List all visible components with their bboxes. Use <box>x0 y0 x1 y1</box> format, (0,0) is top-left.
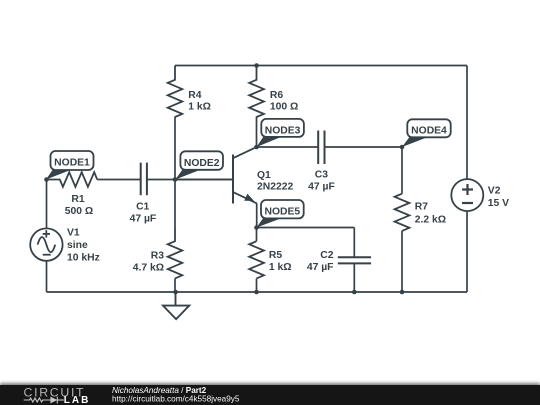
svg-text:1 kΩ: 1 kΩ <box>269 262 292 273</box>
wire NODE3 to C3 <box>257 146 319 148</box>
label C2 value <box>307 250 334 273</box>
label C3 value <box>308 169 335 192</box>
wire V2 branch top <box>466 66 468 180</box>
svg-text:NODE5: NODE5 <box>264 207 300 218</box>
label R3 value <box>133 251 165 274</box>
label C1 value <box>130 202 157 225</box>
svg-text:C2: C2 <box>320 250 333 261</box>
wire R1 to C1 <box>97 179 141 181</box>
transistor Q1 <box>175 147 257 204</box>
node NODE5 <box>257 200 304 228</box>
svg-text:NODE4: NODE4 <box>411 126 447 137</box>
svg-text:http://circuitlab.com/c4k558jv: http://circuitlab.com/c4k558jvea9y5 <box>112 395 240 404</box>
svg-text:10 kHz: 10 kHz <box>67 253 100 264</box>
wire C1 to NODE2 <box>147 179 232 181</box>
resistor R4 <box>168 66 183 118</box>
junction NODE1 <box>44 177 49 182</box>
node NODE4 <box>402 119 451 147</box>
resistor R3 <box>168 228 183 278</box>
wire V1 top lead <box>46 180 48 229</box>
wire bottom rail <box>47 291 468 293</box>
resistor R6 <box>249 66 264 118</box>
label R7 value <box>415 202 446 226</box>
junction NODE4 <box>400 145 405 150</box>
wire C2 bottom lead <box>353 263 355 292</box>
svg-text:R7: R7 <box>415 202 428 213</box>
wire R7 lower lead <box>401 231 403 292</box>
junction NODE5 <box>254 225 259 230</box>
wire top rail <box>175 65 467 67</box>
svg-text:2.2 kΩ: 2.2 kΩ <box>415 214 446 225</box>
capacitor C2 <box>338 257 371 263</box>
svg-text:R3: R3 <box>151 251 164 262</box>
wire R3 lower lead <box>174 279 176 293</box>
resistor R7 <box>395 194 410 231</box>
svg-text:R1: R1 <box>71 194 84 205</box>
svg-text:NODE3: NODE3 <box>265 125 301 136</box>
svg-text:4.7 kΩ: 4.7 kΩ <box>133 262 164 273</box>
logo resistor-diode line <box>24 397 64 404</box>
wire R7 upper lead <box>401 147 403 194</box>
svg-text:NODE2: NODE2 <box>184 158 220 169</box>
svg-text:500 Ω: 500 Ω <box>65 206 93 217</box>
svg-text:R6: R6 <box>270 90 283 101</box>
svg-text:100 Ω: 100 Ω <box>270 102 298 113</box>
capacitor C3 <box>318 131 324 165</box>
wire C3 to NODE4 <box>325 146 403 148</box>
junction R5 / bottom rail <box>254 290 259 295</box>
wire R4 lower lead <box>174 117 176 229</box>
wire V1 bottom lead <box>46 261 48 292</box>
node NODE3 <box>257 119 304 147</box>
wire V2 branch bottom <box>466 211 468 292</box>
source V1 <box>30 228 62 260</box>
junction R7 / bottom rail <box>400 290 405 295</box>
svg-text:NODE1: NODE1 <box>54 158 90 169</box>
label V1 value <box>67 227 100 263</box>
label Q1 value <box>257 170 293 193</box>
svg-text:15 V: 15 V <box>488 198 509 209</box>
node NODE2 <box>175 151 223 179</box>
svg-text:NicholasAndreatta / Part2: NicholasAndreatta / Part2 <box>112 386 207 395</box>
wire R6 to NODE3 <box>256 117 258 148</box>
svg-text:1 kΩ: 1 kΩ <box>188 102 211 113</box>
ground <box>163 292 189 319</box>
svg-text:LAB: LAB <box>64 395 91 405</box>
junction NODE2 <box>173 177 178 182</box>
resistor R1 <box>47 172 98 187</box>
label R1 value <box>65 194 93 217</box>
wire R5 lower lead <box>256 279 258 293</box>
svg-text:C3: C3 <box>315 169 328 180</box>
junction top rail / R6 <box>254 63 259 68</box>
label V2 value <box>488 185 509 209</box>
resistor R5 <box>249 241 264 278</box>
junction NODE3 <box>254 145 259 150</box>
svg-text:R5: R5 <box>269 250 282 261</box>
svg-text:47 µF: 47 µF <box>308 181 335 192</box>
junction C2 / bottom rail <box>352 290 357 295</box>
label R4 value <box>188 90 211 113</box>
svg-text:sine: sine <box>67 240 88 251</box>
junction ground rail <box>173 290 178 295</box>
svg-text:2N2222: 2N2222 <box>257 182 293 193</box>
Q1 emitter arrow <box>244 194 254 201</box>
capacitor C1 <box>141 163 147 196</box>
label R6 value <box>270 90 298 113</box>
svg-text:V1: V1 <box>67 227 80 238</box>
svg-text:47 µF: 47 µF <box>130 214 157 225</box>
svg-text:R4: R4 <box>188 90 201 101</box>
node NODE1 <box>46 151 94 180</box>
source V2 <box>451 179 483 211</box>
svg-text:C1: C1 <box>136 202 149 213</box>
label R5 value <box>269 250 292 273</box>
svg-text:V2: V2 <box>488 185 501 196</box>
wire emitter to NODE5 <box>256 204 258 228</box>
wire R5 upper lead <box>256 228 258 242</box>
svg-text:Q1: Q1 <box>257 170 271 181</box>
wire C2 top lead <box>353 228 355 258</box>
wire NODE5 to C2 <box>257 227 355 229</box>
svg-text:47 µF: 47 µF <box>307 262 334 273</box>
